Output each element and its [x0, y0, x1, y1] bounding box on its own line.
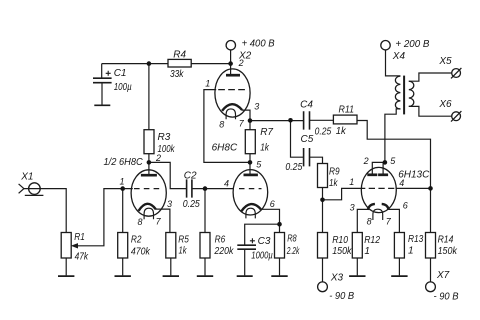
triode V1a envelope (1/2 6H8C input) — [131, 170, 166, 216]
potentiometer R1 wiper arrow — [71, 243, 78, 248]
anode bar of V3 right section pin 5 — [378, 173, 388, 176]
svg-text:R12: R12 — [364, 235, 380, 246]
svg-text:R3: R3 — [158, 132, 171, 143]
svg-text:7: 7 — [239, 118, 245, 128]
transformer TR1 secondary winding — [409, 81, 414, 106]
svg-text:C3: C3 — [258, 236, 271, 247]
resistor R2 body — [118, 233, 128, 259]
ground below C3 — [237, 275, 253, 277]
cathode arc of V1b — [222, 104, 242, 111]
wire: R8 lower lead to ground — [279, 258, 281, 275]
wire: V3 left anode lead pin 2 — [372, 162, 385, 174]
wire: C2 right plate to V2 grid (node 4) — [192, 188, 233, 190]
plus sign of C1 — [106, 71, 111, 76]
connector X1 plug chevron — [19, 184, 24, 193]
wire: X4 stem to transformer primary top — [386, 50, 401, 76]
svg-text:0.25: 0.25 — [183, 199, 200, 210]
wire: R6 lower lead to ground — [204, 258, 206, 275]
svg-text:1: 1 — [349, 177, 354, 187]
heater of V2 — [246, 208, 255, 218]
wire: R13 lower lead to ground — [398, 258, 400, 275]
junction node C4/C5 — [288, 118, 293, 123]
svg-text:150k: 150k — [332, 246, 352, 257]
wire: R8 upper lead — [279, 224, 281, 232]
capacitor C1 plates (electrolytic) — [93, 78, 112, 83]
connector X1 circle — [29, 183, 41, 195]
svg-text:1: 1 — [364, 246, 370, 257]
junction node V2 cathode / C3 / R8 — [277, 222, 282, 227]
wire: X1 to R1 top — [24, 189, 66, 233]
svg-text:C2: C2 — [184, 171, 197, 182]
svg-text:C4: C4 — [300, 100, 313, 111]
svg-text:6: 6 — [270, 199, 275, 209]
svg-text:3: 3 — [350, 202, 355, 212]
svg-text:100µ: 100µ — [114, 82, 132, 93]
svg-text:R7: R7 — [260, 127, 273, 138]
wire: X2 terminal stem down to anode node and into V1b anode — [230, 50, 232, 77]
svg-text:X4: X4 — [392, 51, 406, 62]
wire: C1 top lead — [101, 64, 103, 79]
wire: R14 upper lead from grid node — [430, 188, 432, 232]
wire: C5 right plate to R9 top — [310, 157, 323, 163]
svg-text:R14: R14 — [438, 235, 454, 246]
wire: V3 cathode pin 3 bracket to R12 — [357, 209, 368, 232]
resistor R14 body — [426, 233, 436, 259]
ground below R12 — [349, 275, 365, 277]
triode V2 envelope (6H8C lower SRPP driver) — [233, 170, 268, 215]
ground below R2 — [115, 275, 131, 277]
wire: R7 upper lead — [249, 121, 251, 130]
resistor R12 body — [352, 233, 362, 259]
terminal X3 circle (-90V) — [318, 282, 328, 292]
wire: V1a cathode pin 3 to R5 — [155, 209, 170, 232]
wire: R12 lower lead to ground — [356, 258, 358, 275]
junction node V1b cathode / R7 — [248, 118, 253, 123]
svg-text:2: 2 — [363, 156, 369, 166]
svg-text:6: 6 — [403, 200, 408, 210]
ground below R6 — [197, 275, 213, 277]
wire: V1b cathode node to C4/C5 node — [250, 120, 303, 122]
svg-text:4: 4 — [399, 178, 404, 188]
heater of V1b pins 8,7 — [226, 109, 235, 119]
svg-text:R2: R2 — [131, 235, 142, 246]
wire: node 2 to C2 left plate — [149, 162, 186, 188]
svg-text:470k: 470k — [131, 246, 151, 257]
svg-text:R9: R9 — [329, 167, 340, 178]
junction node at X2/V1b anode — [228, 61, 233, 66]
svg-text:8: 8 — [219, 120, 224, 130]
svg-text:1k: 1k — [260, 142, 270, 153]
svg-text:X6: X6 — [438, 99, 452, 110]
wire: +400V rail from C1 to tube V1b anode node — [102, 63, 231, 65]
wire: grid node to V3 grid pin 1 — [323, 188, 362, 199]
svg-text:1000µ: 1000µ — [251, 250, 273, 261]
svg-text:R10: R10 — [332, 235, 348, 246]
svg-text:X5: X5 — [438, 56, 452, 67]
wire: R11 to output grid node pin 4 — [357, 121, 431, 189]
connector X1 underline — [25, 194, 44, 196]
svg-text:C5: C5 — [301, 134, 314, 145]
wire: C5 branch from node down — [291, 120, 304, 157]
resistor R11 body — [333, 115, 357, 124]
heater of V3 pins 8,7 — [373, 209, 383, 220]
ground below C1 — [94, 104, 110, 106]
transformer TR1 primary winding — [395, 76, 400, 109]
ground below R13 — [391, 275, 407, 277]
triode V1b envelope (6H8C upper SRPP) — [215, 69, 250, 117]
heater of V1a pins 8,7 — [144, 208, 153, 219]
terminal X2 circle (+400V) — [226, 41, 235, 50]
svg-text:1k: 1k — [336, 126, 347, 137]
plus sign of C3 — [250, 238, 255, 243]
svg-text:2: 2 — [155, 153, 161, 163]
wire: R5 lower lead to ground — [170, 258, 172, 275]
junction node 2 V1a anode — [147, 160, 152, 165]
wire: R10 upper lead — [322, 200, 324, 233]
svg-text:R13: R13 — [408, 234, 424, 245]
svg-text:0.25: 0.25 — [285, 162, 302, 173]
svg-text:150k: 150k — [438, 246, 458, 257]
svg-text:+ 200 В: + 200 В — [395, 39, 429, 50]
svg-text:R6: R6 — [215, 235, 226, 246]
wire: R6 upper lead — [204, 189, 206, 233]
wire: C4 right plate to R11 — [310, 119, 333, 121]
anode bar of V2 — [244, 174, 258, 177]
wire: anode node up to transformer primary — [385, 109, 401, 162]
terminal X4 circle (+200V) — [381, 41, 390, 50]
capacitor C5 plates — [304, 148, 310, 166]
junction node 1 V1a grid — [120, 186, 125, 191]
svg-text:2: 2 — [238, 58, 244, 68]
wire: V1b grid pin 1 route down to node 5 — [204, 90, 250, 163]
svg-text:3: 3 — [254, 101, 259, 111]
svg-text:R5: R5 — [178, 235, 189, 246]
anode bar of V1a — [141, 174, 157, 177]
svg-text:R1: R1 — [74, 232, 85, 243]
svg-text:- 90 В: - 90 В — [329, 291, 354, 302]
junction node V3 anodes / transformer — [383, 160, 388, 165]
capacitor C2 plates — [187, 179, 192, 197]
junction node R9/R10 grid bias — [320, 198, 325, 203]
terminal X7 circle (-90V) — [426, 282, 436, 292]
wire: V2 anode lead from node 5 — [249, 162, 251, 175]
wire: transformer secondary top to X5 — [409, 73, 452, 81]
wire: R2 lower lead to ground — [122, 258, 124, 275]
capacitor C3 plates (electrolytic) — [237, 245, 256, 249]
wire: grid dashes of V1a pin 1 — [134, 188, 160, 190]
wire: grid dashes of V3 pins 1 and 4 — [362, 187, 395, 189]
junction node 5 V2 anode — [248, 160, 253, 165]
wire: R3 lower lead to node 2 — [148, 154, 150, 163]
wire: R1 bottom to ground — [65, 258, 67, 275]
anode bar of V1b — [226, 74, 240, 77]
junction node at C1/R4 — [147, 61, 152, 66]
wire: C3 bottom lead to ground — [244, 249, 246, 275]
junction node V3 grid pin 4 / R14 — [428, 186, 433, 191]
svg-text:X1: X1 — [20, 172, 33, 183]
resistor R7 body — [245, 130, 255, 154]
cathode arc of V3 left section pin 3 — [368, 204, 375, 210]
svg-text:7: 7 — [156, 217, 162, 227]
ground below R8 — [271, 275, 287, 277]
cathode arc of V2 — [241, 204, 261, 211]
wire: grid dashes of V1b pin 1 — [218, 89, 245, 91]
svg-text:R8: R8 — [287, 234, 297, 245]
capacitor C4 plates — [304, 111, 310, 129]
tube V3 envelope (6H13C output dual triode) — [361, 167, 396, 212]
svg-text:X7: X7 — [436, 270, 450, 281]
svg-text:3: 3 — [167, 199, 172, 209]
wire: V3 grid pin 4 to right node — [396, 187, 431, 189]
svg-text:C1: C1 — [114, 68, 127, 79]
svg-text:8: 8 — [367, 216, 372, 226]
svg-text:5: 5 — [390, 156, 396, 166]
resistor R10 body — [318, 233, 328, 259]
wire: V2 cathode pin 6 to C3/R8 node — [261, 209, 280, 224]
wire: V3 right anode lead pin 5 — [382, 162, 384, 174]
resistor R9 body — [318, 164, 328, 188]
cathode arc of V1a — [139, 204, 156, 211]
wire: R7 lower lead to node 5 — [249, 154, 251, 163]
anode bar of V3 left section pin 2 — [367, 173, 377, 176]
wire: R10 bottom to X3 — [322, 258, 324, 282]
ground below R5 — [163, 275, 179, 277]
resistor R13 body — [394, 233, 404, 259]
resistor R5 body — [166, 233, 176, 259]
svg-text:X3: X3 — [330, 272, 344, 283]
svg-text:1k: 1k — [329, 178, 338, 189]
wire: R14 bottom to X7 — [430, 258, 432, 282]
svg-text:5: 5 — [256, 159, 262, 169]
wire: R1 wiper to grid node 1 — [77, 189, 133, 246]
wire: transformer secondary bottom to X6 — [409, 106, 452, 116]
svg-text:R4: R4 — [173, 50, 186, 61]
wire: grid dashes of V2 pin 4 — [239, 188, 262, 190]
svg-text:1: 1 — [205, 79, 210, 89]
svg-text:47k: 47k — [75, 252, 89, 263]
svg-text:+ 400 В: + 400 В — [242, 38, 275, 49]
svg-text:R11: R11 — [339, 105, 355, 116]
wire: node to C3 top plate — [245, 224, 280, 245]
svg-text:1: 1 — [120, 177, 125, 187]
svg-text:4: 4 — [224, 178, 229, 188]
terminal X5 circle with slash — [452, 69, 461, 78]
svg-text:220k: 220k — [214, 246, 235, 257]
svg-text:33k: 33k — [170, 69, 184, 80]
terminal X6 circle with slash — [452, 112, 461, 121]
svg-text:1/2 6Н8С: 1/2 6Н8С — [104, 157, 144, 168]
wire: R2 upper lead — [122, 189, 124, 233]
svg-text:1: 1 — [408, 246, 414, 257]
resistor R4 body — [168, 59, 191, 67]
svg-text:0.25: 0.25 — [315, 126, 332, 137]
transformer TR1 core — [403, 76, 405, 115]
cathode arc of V3 right section pin 6 — [382, 204, 389, 210]
svg-text:6Н8С: 6Н8С — [212, 143, 238, 154]
svg-text:7: 7 — [386, 216, 392, 226]
wire: R9 bottom lead to grid node — [322, 188, 324, 200]
resistor R3 body — [144, 130, 154, 154]
resistor R8 body — [275, 233, 285, 259]
wire: V1b cathode pin 3 to R7 top node — [242, 110, 250, 121]
ground below R1 — [58, 275, 74, 277]
wire: V3 cathode pin 6 bracket to R13 — [389, 209, 400, 232]
svg-text:2.2k: 2.2k — [286, 246, 300, 257]
svg-text:- 90 В: - 90 В — [434, 292, 459, 303]
resistor R6 body — [200, 233, 210, 259]
svg-text:1k: 1k — [179, 246, 188, 257]
wire: V1a anode lead — [148, 162, 150, 175]
wire: R3 upper lead — [148, 64, 150, 130]
svg-text:8: 8 — [138, 217, 143, 227]
resistor R1 body (potentiometer) — [61, 233, 71, 259]
wire: C1 bottom lead to ground — [101, 83, 103, 105]
junction node 4 V2 grid / R6 — [203, 186, 208, 191]
